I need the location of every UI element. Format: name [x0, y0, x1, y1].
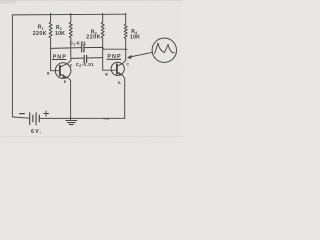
svg-text:C: C [126, 62, 129, 66]
svg-text:10K: 10K [130, 35, 140, 41]
svg-text:1: 1 [42, 26, 44, 30]
svg-text:-0.01: -0.01 [81, 62, 94, 67]
svg-text:PNP: PNP [53, 55, 67, 61]
svg-text:C: C [70, 63, 73, 67]
svg-text:220K: 220K [86, 35, 100, 41]
svg-text:-0.01: -0.01 [75, 41, 86, 46]
svg-text:B: B [105, 73, 108, 77]
svg-text:6V.: 6V. [31, 129, 42, 135]
svg-text:B: B [47, 71, 50, 75]
svg-text:PNP: PNP [107, 54, 121, 60]
svg-text:220K: 220K [33, 31, 47, 37]
svg-text:10K: 10K [55, 31, 65, 37]
svg-text:E.: E. [118, 81, 121, 85]
